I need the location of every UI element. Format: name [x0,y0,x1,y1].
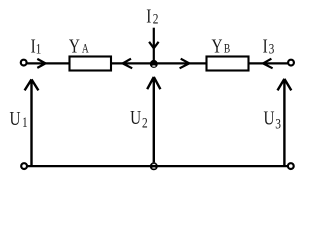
terminal bottom-left [21,163,27,169]
wire YA to node [112,62,154,64]
current arrow into node from right of YA [123,59,133,69]
node bottom-center [150,162,158,170]
wire I2 drop [153,28,155,64]
wire YB to right terminal [250,62,289,64]
voltage arrow U2 [147,77,160,162]
admittance YA [70,57,112,71]
voltage arrow U1 [25,79,39,166]
wire bottom rail [27,165,288,167]
current arrow toward YB [180,59,190,69]
wire top-left segment [27,62,69,64]
current arrow I3 [263,59,273,69]
node top-center [150,60,158,68]
terminal bottom-right [288,163,294,169]
voltage arrow U3 [278,79,292,166]
admittance YB [207,57,249,71]
current arrow I2 [149,42,159,48]
current arrow I1 [37,59,45,68]
terminal top-right [288,60,294,66]
terminal top-left [21,60,27,66]
wire node to YB [154,62,206,64]
